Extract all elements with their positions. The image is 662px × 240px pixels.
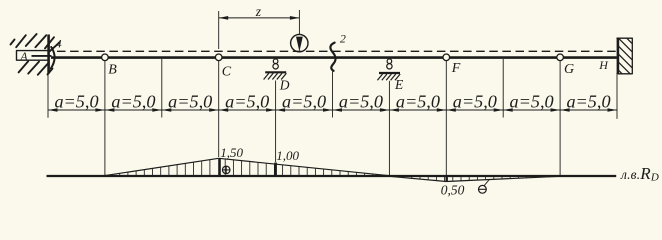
svg-text:2: 2 [340,31,346,45]
svg-text:a=5,0: a=5,0 [566,92,610,112]
svg-text:a=5,0: a=5,0 [54,92,98,112]
svg-text:4: 4 [56,36,62,50]
svg-text:B: B [108,63,117,78]
svg-text:1,50: 1,50 [220,145,243,160]
svg-text:a=5,0: a=5,0 [168,92,212,112]
svg-text:a=5,0: a=5,0 [111,92,155,112]
svg-text:G: G [564,62,574,77]
svg-text:H: H [598,58,609,72]
svg-text:a=5,0: a=5,0 [282,92,326,112]
svg-text:z: z [255,4,262,19]
svg-text:0,50: 0,50 [441,182,465,197]
svg-text:1,00: 1,00 [276,148,299,163]
svg-text:C: C [222,64,232,79]
svg-text:a=5,0: a=5,0 [225,92,269,112]
svg-text:D: D [279,78,290,93]
svg-text:a=5,0: a=5,0 [510,92,554,112]
svg-text:a=5,0: a=5,0 [396,92,440,112]
svg-text:F: F [451,61,461,76]
svg-text:a=5,0: a=5,0 [339,92,383,112]
svg-text:E: E [394,77,404,92]
svg-text:A: A [20,51,29,63]
svg-text:a=5,0: a=5,0 [453,92,497,112]
